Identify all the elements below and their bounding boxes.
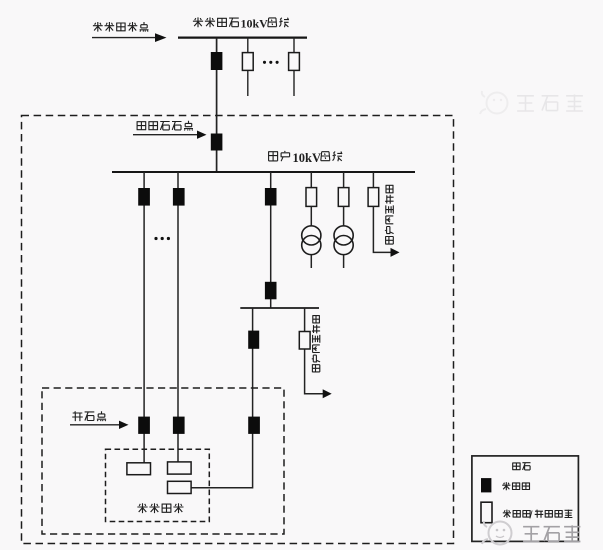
legend symbol: breaker (filled) (481, 478, 491, 492)
wire: branch L2 down to PV inverter 2 (177, 172, 179, 463)
wire: link to transformer T1 (310, 206, 312, 226)
wire: public grid 10kV busbar (178, 36, 307, 38)
wire: sub-branch left down to PV inverter 3 (191, 308, 252, 488)
switch S1 (circuit breaker / load switch, open symbol) (242, 53, 253, 71)
switch S3 (load switch feeding transformer T1) (306, 188, 317, 207)
breaker QF3 on branch L1 (138, 188, 150, 206)
breaker QF1 (public grid side, closed) (211, 52, 223, 70)
wire: transformer branch T2 drop (343, 172, 345, 188)
legend title 图例 (512, 463, 530, 470)
breaker QF10 at grid-connection point on left sub-branch (248, 417, 260, 434)
switch S4 (load switch feeding transformer T2) (338, 188, 349, 207)
legend label 断路器/负荷开关 (503, 510, 573, 522)
watermark text 王淑娟 (top right, faint) (517, 95, 583, 112)
wire: main feeder from public busbar down to user busbar (216, 38, 218, 172)
arrow to grid connection point (70, 421, 129, 429)
outer dashed boundary box: user installation (22, 116, 454, 544)
watermark doodle face (top right, faint) (480, 91, 508, 114)
label: 光伏电站 (PV plant) (137, 503, 183, 513)
wire: sub-branch right (internal load lower) (305, 308, 324, 394)
wire: grid feeder stub 2 (293, 38, 295, 96)
inner dashed box: PV plant 光伏电站 (106, 449, 210, 521)
PV inverter unit 1 (127, 463, 151, 475)
breaker QF2 (property demarcation breaker) (211, 134, 223, 151)
node: property demarcation point label 产权分界点 (137, 121, 193, 131)
wire: branch L1 down to PV inverter 1 (143, 172, 145, 464)
arrow to public connection point (92, 33, 167, 42)
PV inverter unit 2 (168, 462, 192, 474)
wire: transformer T1 secondary tail (310, 255, 312, 268)
label: 用户内部负荷 (user internal load, rotated) lower (312, 315, 320, 372)
breaker QF8 at grid-connection point on L1 (138, 417, 150, 434)
transformer T2 (two-winding) (334, 226, 353, 255)
wire: link to transformer T2 (343, 206, 345, 226)
breaker QF9 at grid-connection point on L2 (173, 417, 185, 434)
ellipsis dots between PV branches (154, 237, 170, 240)
switch S5 (load switch on internal load feeder) (368, 188, 379, 207)
svg-text:10kV: 10kV (293, 151, 321, 165)
wire: transformer branch T1 drop (310, 172, 312, 188)
breaker QF4 on branch L2 (173, 188, 185, 206)
arrow: to user internal load (lower) (323, 389, 332, 398)
wire: transformer T2 secondary tail (343, 255, 345, 268)
wire: grid feeder stub 1 (247, 38, 249, 96)
node: grid connection point label 并网点 (72, 411, 106, 421)
wire: sub-busbar (240, 307, 319, 309)
wire: internal load branch L6 drop (372, 172, 374, 188)
arrow: to user internal load (upper) (391, 248, 400, 257)
breaker QF6 on branch L3 (above sub-busbar) (265, 282, 277, 300)
legend box 图例 (472, 456, 579, 542)
svg-text:10kV: 10kV (241, 17, 269, 31)
label: public grid 10kV busbar 公共电网10kV母线 (193, 17, 289, 31)
wire: internal load feeder down and right (373, 206, 391, 252)
watermark doodle face (bottom right) (482, 521, 512, 545)
switch S6 on lower internal load feeder (299, 332, 310, 350)
wire: user 10kV busbar (112, 171, 415, 173)
breaker QF5 on branch L3 (top) (265, 188, 277, 206)
legend label 断路器 (502, 482, 530, 490)
transformer T1 (two-winding) (302, 226, 321, 255)
watermark text 王淑娟 (bottom right) (523, 525, 580, 541)
PV inverter unit 3 (168, 481, 192, 493)
switch S2 (circuit breaker / load switch) (289, 53, 300, 71)
label: user 10kV busbar 用户10kV母线 (268, 151, 342, 165)
node: public connection point label 公共连接点 (93, 22, 149, 32)
ellipsis dots between grid stubs (263, 61, 279, 64)
wire: branch L3 down to sub-busbar (270, 172, 272, 308)
breaker QF7 on left sub-branch (248, 331, 259, 349)
legend symbol: breaker/load switch (open) (481, 502, 492, 523)
arrow to property demarcation point (133, 131, 207, 139)
middle dashed box: grid-connection area (42, 388, 284, 534)
label: 用户内部负荷 (user internal load, rotated) upper (385, 185, 394, 245)
